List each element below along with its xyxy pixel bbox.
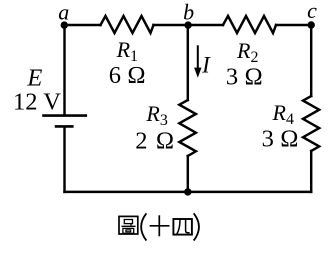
wire b to R2: [188, 24, 223, 26]
svg-text:2 Ω: 2 Ω: [135, 128, 175, 155]
resistor R2: [223, 16, 276, 33]
current arrow I: [194, 45, 201, 78]
caption paren close: [194, 213, 199, 240]
node b dot: [184, 21, 191, 28]
wire right branch lower: [310, 151, 312, 192]
wire R1 to b: [154, 24, 188, 26]
wire right branch upper: [310, 25, 312, 96]
svg-text:3 Ω: 3 Ω: [226, 64, 263, 91]
svg-text:3 Ω: 3 Ω: [262, 126, 299, 153]
node a dot: [61, 21, 68, 28]
svg-text:I: I: [201, 53, 211, 78]
wire bottom: [65, 191, 312, 193]
svg-text:6 Ω: 6 Ω: [109, 62, 146, 89]
resistor R1: [101, 16, 154, 33]
caption glyph tu (figure): [119, 216, 138, 234]
wire middle branch upper: [187, 25, 189, 100]
resistor R3: [179, 100, 196, 156]
caption glyph ten: [150, 215, 170, 236]
wire left branch upper: [63, 25, 65, 115]
resistor R4: [303, 96, 319, 151]
caption paren open: [141, 213, 146, 240]
wire top a to R1: [65, 24, 101, 26]
wire R2 to c: [276, 24, 311, 26]
wire middle branch lower: [187, 156, 189, 192]
junction dot bottom: [184, 188, 191, 195]
node c dot: [308, 21, 315, 28]
svg-text:12 V: 12 V: [13, 89, 61, 116]
svg-text:c: c: [307, 0, 317, 23]
svg-text:b: b: [183, 0, 194, 24]
battery E plate long: [42, 114, 87, 117]
wire left branch lower: [63, 128, 65, 192]
battery E plate short: [55, 125, 74, 128]
caption glyph four: [173, 219, 192, 235]
svg-text:a: a: [58, 0, 69, 24]
